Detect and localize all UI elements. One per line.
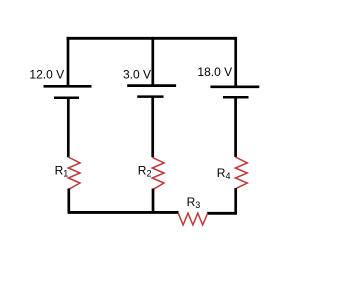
wire middle branch lower bbox=[152, 189, 155, 213]
wire top rail bbox=[67, 37, 237, 40]
wire left branch upper bbox=[67, 37, 70, 86]
svg-text:3.0 V: 3.0 V bbox=[123, 68, 151, 82]
wire bottom rail right bbox=[207, 212, 237, 215]
battery V1 short plate bbox=[54, 96, 79, 99]
wire middle branch mid bbox=[151, 97, 154, 158]
battery V1 long plate bbox=[44, 85, 92, 88]
resistor R4 bbox=[235, 157, 247, 189]
wire middle branch upper bbox=[151, 37, 154, 86]
wire right branch mid bbox=[234, 97, 237, 157]
battery V3 long plate bbox=[210, 85, 259, 88]
battery V2 long plate bbox=[127, 84, 176, 87]
svg-text:12.0 V: 12.0 V bbox=[29, 68, 64, 82]
resistor R3 bbox=[178, 213, 207, 225]
battery V3 short plate bbox=[223, 96, 249, 99]
resistor R1 bbox=[68, 157, 80, 189]
wire left branch lower bbox=[67, 189, 70, 213]
resistor R2 bbox=[152, 157, 164, 189]
wire right branch lower bbox=[234, 188, 237, 213]
wire left branch mid bbox=[67, 98, 70, 158]
svg-text:18.0 V: 18.0 V bbox=[197, 65, 232, 79]
battery V2 short plate bbox=[137, 95, 163, 98]
wire bottom rail left bbox=[68, 211, 179, 214]
wire right branch upper bbox=[234, 37, 237, 87]
